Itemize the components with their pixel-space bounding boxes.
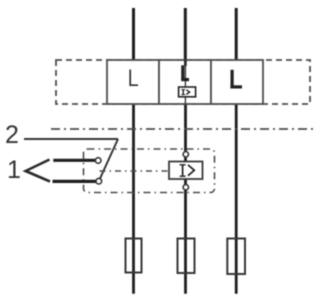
wire to upper switch contact xyxy=(53,159,95,162)
dash-dot bus/section line xyxy=(51,128,315,130)
switch blade / actuator link xyxy=(99,139,118,181)
overload element box L2 xyxy=(159,60,211,104)
fuse F3 xyxy=(227,239,245,275)
chevron arrow for label 1 xyxy=(26,160,50,182)
leader line for label 2 xyxy=(24,138,118,140)
fuse F2 xyxy=(178,239,195,274)
label L (phase 2, bold) xyxy=(181,65,189,79)
wire L1 lower run xyxy=(132,104,135,294)
wire L3 lower run xyxy=(235,104,238,294)
svg-text:1: 1 xyxy=(7,156,21,184)
overload element box L3 xyxy=(211,60,263,104)
wire L3 top xyxy=(235,8,238,60)
terminal above I> xyxy=(183,152,188,157)
wire through box L2 xyxy=(184,60,187,66)
fuse F1 xyxy=(126,239,142,273)
dashed enclosure (overload relay group) xyxy=(56,60,310,104)
mechanical linkage dash-dot xyxy=(100,170,170,172)
switch contact lower xyxy=(96,178,102,184)
wire to lower switch contact xyxy=(53,180,97,183)
switch contact upper xyxy=(95,158,101,164)
label L (phase 1) xyxy=(130,70,138,86)
overload element box L1 xyxy=(107,60,159,104)
svg-text:2: 2 xyxy=(5,121,19,149)
label L (phase 3, bold) xyxy=(230,70,242,87)
terminal below I> xyxy=(183,185,188,190)
trip unit I> (small box in L2) xyxy=(179,87,196,97)
dash-dot enclosure (breaker group) xyxy=(84,149,215,193)
wire L1 top xyxy=(132,8,135,60)
wire L2 lower run xyxy=(184,104,187,294)
wire L2 top xyxy=(184,8,187,60)
overcurrent release box I> xyxy=(169,162,203,180)
